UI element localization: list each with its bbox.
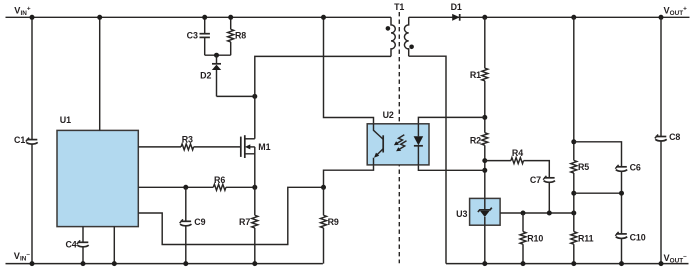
capacitor C9: [180, 187, 206, 263]
wire opto collector from VIN+: [324, 17, 374, 124]
capacitor C10: [615, 232, 645, 264]
node junction LED anode: [482, 115, 487, 120]
wire R3 to M1 gate: [194, 146, 241, 148]
svg-text:R10: R10: [527, 233, 543, 243]
svg-text:R11: R11: [578, 233, 594, 243]
svg-text:T1: T1: [394, 2, 404, 12]
capacitor C7: [524, 161, 556, 213]
node junction D2 switch node: [252, 94, 257, 99]
node junction R5 top: [571, 139, 576, 144]
svg-text:R2: R2: [470, 135, 481, 145]
svg-text:R1: R1: [470, 70, 481, 80]
resistor R9: [321, 187, 339, 263]
resistor R8: [228, 17, 247, 55]
node junction C1 top: [30, 15, 35, 20]
T1 primary winding: [391, 17, 395, 56]
svg-text:C6: C6: [630, 163, 641, 173]
T1 primary phasing dot: [386, 26, 391, 31]
node junction C9 bottom: [183, 261, 188, 266]
svg-text:D2: D2: [200, 71, 211, 81]
node junction U1 supply: [97, 15, 102, 20]
capacitor C8: [655, 17, 681, 263]
wire U1 current sense pin: [138, 186, 213, 188]
transistor M1: [241, 135, 271, 187]
svg-text:C10: C10: [630, 233, 646, 243]
resistor R11: [571, 213, 594, 264]
transformer T1: [386, 2, 414, 57]
wire bottom rail secondary VOUT-: [446, 263, 689, 265]
wire opto emitter to feedback node: [324, 165, 374, 187]
resistor R2: [470, 133, 488, 146]
node junction R10 bottom: [521, 261, 526, 266]
svg-text:C1: C1: [14, 135, 25, 145]
wire primary bottom to M1 drain: [255, 56, 391, 138]
resistor R1: [470, 17, 488, 81]
wire U1 top supply pin: [99, 17, 101, 130]
wire R1 to opto anode node: [484, 81, 486, 133]
node junction feedback R9: [321, 185, 326, 190]
svg-text:U2: U2: [383, 110, 394, 120]
wire top rail secondary VOUT+: [409, 16, 690, 18]
node junction C9 top: [183, 185, 188, 190]
wire secondary return: [409, 56, 446, 263]
wire U3 reference row: [500, 212, 574, 214]
svg-text:C3: C3: [187, 31, 198, 41]
node junction M1 source R6 R7: [252, 185, 257, 190]
resistor R5: [571, 160, 590, 213]
svg-text:R7: R7: [239, 217, 250, 227]
svg-text:U3: U3: [456, 209, 467, 219]
node junction C6 C10: [619, 191, 624, 196]
wire U1 gate drive pin: [138, 146, 181, 148]
svg-text:R8: R8: [235, 31, 246, 41]
node junction snubber to D2: [214, 53, 219, 58]
transistor U2 phototransistor: [374, 124, 384, 165]
svg-text:R5: R5: [578, 162, 589, 172]
node junction C1 bottom: [30, 261, 35, 266]
diode D1: [451, 2, 462, 21]
diode D2: [200, 55, 221, 96]
node junction ref to R11: [571, 211, 576, 216]
node junction C8 bottom: [659, 261, 664, 266]
capacitor C1: [14, 17, 38, 263]
node junction C10 bottom: [619, 261, 624, 266]
svg-text:C4: C4: [65, 240, 76, 250]
resistor R7: [239, 187, 258, 263]
wire D2 anode to switch node: [217, 95, 255, 97]
node junction U3 anode ground: [482, 261, 487, 266]
wire R5 C6 branch from VOUT+: [573, 17, 575, 160]
wire U1 bottom pin to C4: [82, 227, 84, 243]
op-amp U1 controller box: [57, 130, 138, 226]
node junction C8 top: [659, 15, 664, 20]
svg-text:C8: C8: [669, 132, 680, 142]
node junction R5 bottom C6 bottom: [571, 191, 576, 196]
wire U1 feedback pin routing: [138, 187, 323, 244]
op-amp U3 shunt regulator box: [470, 198, 501, 225]
node junction C7 bottom: [547, 211, 552, 216]
wire C3 R8 bottom bus: [205, 54, 231, 56]
resistor R6: [213, 184, 226, 190]
svg-text:R6: R6: [214, 175, 225, 185]
capacitor C6: [615, 163, 641, 234]
wire U3 anode to ground: [484, 225, 486, 263]
resistor R4: [485, 148, 524, 163]
node junction C4 bottom: [81, 261, 86, 266]
node junction LED cathode tap: [482, 168, 487, 173]
T1 secondary phasing dot: [409, 45, 414, 50]
capacitor C3: [187, 17, 210, 55]
wire R6 to M1 source node: [226, 186, 255, 188]
svg-text:R9: R9: [328, 217, 339, 227]
node junction D1 R1: [482, 15, 487, 20]
resistor R3: [181, 144, 194, 150]
node junction R7 bottom: [252, 261, 257, 266]
node junction C3 top: [202, 15, 207, 20]
wire R2 to U3 cathode: [484, 145, 486, 198]
wire C6 bottom row: [574, 192, 622, 194]
diode U2 LED: [414, 124, 424, 165]
diode U3 TL431 symbol: [478, 198, 492, 225]
node junction opto collector rail: [321, 15, 326, 20]
node junction R8 top: [228, 15, 233, 20]
node junction R5 C6 branch top: [571, 15, 576, 20]
U2 light arrows: [394, 135, 407, 152]
wire bottom rail primary VIN-: [6, 263, 323, 265]
node junction R10 top: [521, 211, 526, 216]
node junction U1 ground: [112, 261, 117, 266]
wire LED anode to divider: [418, 117, 484, 123]
svg-text:R3: R3: [182, 134, 193, 144]
wire R5 top to C6 top: [574, 142, 622, 167]
op-amp U2 optocoupler box: [367, 124, 429, 165]
capacitor C4: [65, 240, 88, 264]
wire U1 ground pin: [113, 227, 115, 264]
isolation barrier dashed line: [398, 12, 400, 263]
svg-text:M1: M1: [258, 142, 270, 152]
svg-text:C9: C9: [194, 217, 205, 227]
node junction R4 tap: [482, 158, 487, 163]
wire LED cathode to U3: [418, 165, 484, 170]
node junction R11 bottom: [571, 261, 576, 266]
svg-text:C7: C7: [530, 175, 541, 185]
svg-text:D1: D1: [451, 2, 462, 12]
wire top rail primary VIN+: [6, 16, 392, 18]
svg-text:R4: R4: [512, 148, 523, 158]
resistor R10: [520, 213, 543, 264]
T1 secondary winding: [404, 17, 408, 56]
svg-text:U1: U1: [60, 115, 71, 125]
